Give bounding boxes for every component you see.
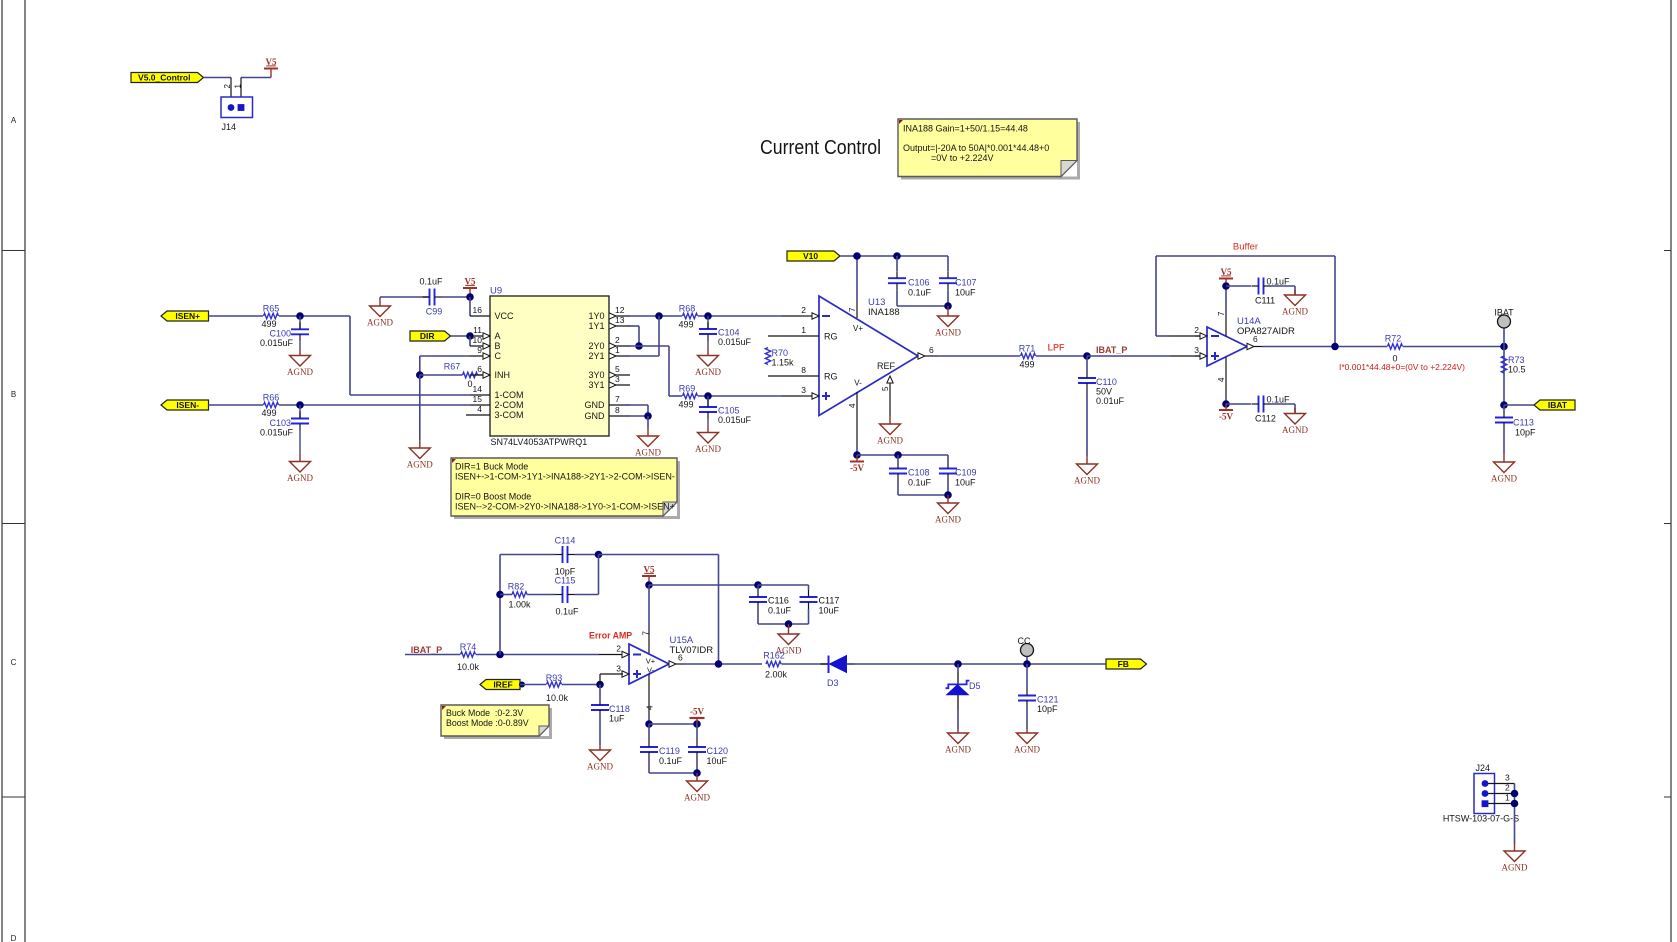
svg-text:AGND: AGND — [407, 460, 433, 470]
ground AGND C111 — [1294, 290, 1296, 295]
node V5 junction C116 — [754, 581, 762, 589]
wire — [405, 654, 460, 656]
wire — [299, 341, 301, 347]
svg-text:IBAT: IBAT — [1548, 400, 1568, 410]
pin 16 VCC — [470, 315, 490, 317]
svg-text:499: 499 — [261, 319, 276, 329]
wire — [209, 404, 264, 406]
capacitor C114 — [562, 546, 564, 563]
capacitor C116 — [757, 585, 759, 590]
node IBAT junction — [1500, 343, 1508, 351]
pin 1 U13 — [768, 335, 819, 337]
node -5V junction C120 — [693, 720, 701, 728]
svg-text:Error AMP: Error AMP — [589, 631, 632, 641]
capacitor C107 — [947, 256, 949, 271]
node CC junction — [1023, 660, 1031, 668]
wire — [299, 431, 301, 454]
wire — [658, 316, 660, 356]
wire — [647, 416, 649, 428]
ground AGND C108 C109 — [947, 495, 949, 503]
svg-text:1.00k: 1.00k — [508, 600, 531, 610]
svg-text:J24: J24 — [1476, 763, 1491, 773]
svg-text:0.01uF: 0.01uF — [1096, 396, 1125, 406]
wire — [698, 315, 782, 317]
svg-text:1-COM: 1-COM — [495, 390, 524, 400]
wire — [627, 325, 639, 327]
svg-text:C114: C114 — [555, 536, 576, 546]
node IBAT_P junction — [1083, 352, 1091, 360]
pin 6 U13 output — [918, 353, 925, 359]
diode D3 — [821, 663, 829, 665]
svg-text:=0V to +2.224V: =0V to +2.224V — [931, 153, 994, 163]
svg-text:AGND: AGND — [587, 762, 613, 772]
svg-text:C109: C109 — [955, 468, 977, 478]
svg-text:V+: V+ — [646, 657, 656, 666]
ground AGND C106 C107 — [947, 306, 949, 316]
svg-text:C99: C99 — [426, 307, 443, 317]
ground AGND U9 — [647, 428, 649, 436]
wire — [707, 341, 709, 348]
pin 15 2-COM — [470, 404, 490, 406]
ground AGND C100 — [299, 348, 301, 356]
wire — [451, 335, 471, 337]
node R69 junction — [704, 392, 712, 400]
svg-text:3: 3 — [1194, 345, 1199, 355]
ground AGND C119 C120 — [696, 773, 698, 781]
svg-text:R73: R73 — [1508, 355, 1525, 365]
wire — [1262, 346, 1387, 348]
node VCC junction — [466, 293, 474, 301]
svg-text:1: 1 — [234, 84, 243, 89]
wire — [469, 297, 471, 316]
svg-text:7: 7 — [1217, 311, 1226, 316]
svg-text:499: 499 — [678, 400, 693, 410]
svg-text:HTSW-103-07-G-S: HTSW-103-07-G-S — [1443, 814, 1519, 824]
wire — [575, 554, 599, 556]
wire — [350, 394, 470, 396]
svg-text:0.1uF: 0.1uF — [1267, 277, 1291, 287]
resistor R74 — [461, 652, 476, 657]
svg-text:11: 11 — [473, 325, 482, 335]
capacitor C108 — [897, 455, 899, 462]
wire — [209, 315, 264, 317]
svg-text:6: 6 — [1253, 334, 1258, 344]
node 2Y0 junction — [635, 342, 643, 350]
svg-text:1Y1: 1Y1 — [588, 321, 604, 331]
svg-text:DIR=1 Buck Mode: DIR=1 Buck Mode — [455, 462, 528, 472]
power V5 at U9 — [469, 288, 471, 297]
resistor R66 — [264, 402, 279, 407]
wire — [599, 717, 601, 745]
node J24 junction 2 — [1511, 790, 1519, 798]
svg-text:INH: INH — [495, 370, 511, 380]
wire — [648, 759, 650, 773]
capacitor C106 — [896, 256, 898, 271]
node R74 junction — [496, 651, 504, 659]
node D5 junction — [954, 660, 962, 668]
svg-text:499: 499 — [1019, 360, 1034, 370]
wire — [1403, 346, 1504, 348]
svg-text:499: 499 — [678, 320, 693, 330]
wire — [575, 594, 599, 596]
power -5V U13 — [856, 455, 858, 462]
pin 12 1Y0 — [609, 315, 630, 317]
svg-text:C116: C116 — [768, 596, 789, 606]
svg-text:10uF: 10uF — [955, 478, 976, 488]
svg-text:C115: C115 — [555, 576, 576, 586]
pin 4 U14A — [1225, 357, 1227, 397]
svg-text:10pF: 10pF — [1515, 428, 1536, 438]
svg-text:-5V: -5V — [850, 463, 864, 473]
svg-text:0.1uF: 0.1uF — [908, 288, 932, 298]
wire feedback — [1156, 255, 1335, 257]
op-amp U15A TLV07IDR — [629, 644, 669, 684]
test point IBAT — [1503, 328, 1505, 347]
svg-text:U9: U9 — [490, 286, 502, 297]
pin 4 U15A — [648, 674, 650, 716]
svg-text:R72: R72 — [1385, 334, 1402, 344]
svg-text:0.015uF: 0.015uF — [718, 415, 752, 425]
svg-text:V-: V- — [854, 379, 862, 388]
ground AGND J24 — [1514, 844, 1516, 852]
svg-text:6: 6 — [929, 345, 934, 355]
pin 5 3Y0 — [609, 374, 630, 376]
svg-text:10uF: 10uF — [819, 606, 840, 616]
svg-text:10uF: 10uF — [707, 756, 728, 766]
capacitor C99 — [380, 296, 430, 298]
svg-text:INA188: INA188 — [868, 307, 900, 318]
svg-text:AGND: AGND — [695, 444, 721, 454]
ground AGND C116 C117 — [788, 624, 790, 634]
IC U9 SN74LV4053ATPWRQ1 — [490, 296, 609, 436]
wire — [897, 481, 899, 496]
pin 6 INH — [470, 374, 490, 376]
svg-text:C108: C108 — [908, 468, 930, 478]
wire — [476, 654, 599, 656]
ground AGND C118 — [599, 745, 601, 750]
resistor R72 — [1388, 344, 1403, 349]
node U15A output junction — [715, 660, 723, 668]
svg-text:9: 9 — [477, 345, 482, 355]
ground AGND REF — [889, 416, 891, 424]
svg-text:C103: C103 — [269, 418, 291, 428]
svg-text:7: 7 — [642, 631, 651, 636]
svg-text:1: 1 — [801, 325, 806, 335]
node V5 junction U14A — [1222, 282, 1230, 290]
wire — [957, 695, 959, 710]
node ISEN- junction — [296, 401, 304, 409]
svg-text:DIR: DIR — [420, 331, 435, 341]
svg-text:0.1uF: 0.1uF — [419, 277, 443, 287]
ground AGND C105 — [707, 425, 709, 433]
pin 3 U14A — [1195, 355, 1200, 357]
wire — [420, 355, 470, 357]
node R73 junction — [1500, 401, 1508, 409]
svg-text:3Y1: 3Y1 — [588, 380, 604, 390]
wire — [1514, 784, 1516, 844]
svg-text:7: 7 — [848, 307, 857, 312]
wire — [649, 723, 697, 725]
svg-text:R65: R65 — [263, 304, 280, 314]
svg-text:1: 1 — [615, 345, 620, 355]
capacitor C103 — [299, 405, 301, 419]
net label ISEN+ — [161, 311, 209, 321]
svg-text:DIR=0 Boost Mode: DIR=0 Boost Mode — [455, 492, 531, 502]
note buck/boost voltage — [444, 708, 552, 739]
node -5V junction C108 — [894, 451, 902, 459]
node V10 junction C106 — [893, 252, 901, 260]
node GND junction — [644, 412, 652, 420]
svg-text:RG: RG — [824, 332, 838, 342]
pin 2 U14A — [1195, 335, 1200, 337]
node output junction U14A — [1331, 343, 1339, 351]
svg-text:V5.0_Control: V5.0_Control — [138, 73, 190, 83]
wire — [469, 336, 471, 346]
resistor R162 — [766, 661, 781, 666]
svg-text:R69: R69 — [679, 384, 696, 394]
svg-text:C: C — [11, 658, 17, 667]
svg-text:5: 5 — [615, 364, 620, 374]
node C114 junction — [595, 551, 603, 559]
svg-text:D5: D5 — [969, 681, 981, 691]
svg-text:LPF: LPF — [1048, 343, 1066, 353]
wire — [947, 481, 949, 496]
svg-text:0.1uF: 0.1uF — [908, 478, 932, 488]
svg-text:A: A — [11, 116, 17, 125]
node DIR junction — [466, 332, 474, 340]
pin 7 U14A — [1225, 286, 1227, 315]
svg-text:Current Control: Current Control — [760, 137, 881, 159]
pin 2 U13 — [801, 315, 812, 317]
node C109 junction — [944, 491, 952, 499]
capacitor C100 — [299, 316, 301, 329]
pin 9 C — [470, 355, 490, 357]
capacitor C104 — [707, 316, 709, 329]
wire — [808, 609, 810, 624]
wire — [1026, 708, 1028, 730]
pin 3 J24 — [1488, 783, 1515, 785]
node -5V junction U14A — [1222, 400, 1230, 408]
wire — [499, 555, 501, 655]
wire — [627, 355, 659, 357]
svg-text:3: 3 — [1505, 773, 1510, 783]
pin 13 1Y1 — [609, 325, 630, 327]
svg-text:C106: C106 — [908, 278, 930, 288]
wire — [707, 419, 709, 425]
svg-text:R93: R93 — [546, 673, 563, 683]
svg-text:J14: J14 — [222, 122, 237, 132]
pin 4 3-COM — [466, 414, 490, 416]
node 1Y0 junction — [655, 312, 663, 320]
svg-text:3-COM: 3-COM — [495, 410, 524, 420]
resistor R82 — [500, 594, 512, 596]
svg-text:A: A — [495, 331, 501, 341]
svg-text:-5V: -5V — [1219, 412, 1233, 422]
svg-text:C107: C107 — [955, 278, 977, 288]
svg-text:ISEN-->2-COM->2Y0->INA188->1Y0: ISEN-->2-COM->2Y0->INA188->1Y0->1-COM->I… — [455, 502, 675, 512]
svg-text:C110: C110 — [1096, 377, 1117, 387]
svg-text:2Y0: 2Y0 — [588, 341, 604, 351]
wire — [1036, 355, 1087, 357]
svg-text:R70: R70 — [772, 348, 789, 358]
pin 7 U15A — [648, 585, 650, 630]
svg-text:RG: RG — [824, 372, 838, 382]
svg-text:2: 2 — [615, 335, 620, 345]
svg-text:0.1uF: 0.1uF — [1267, 395, 1291, 405]
wire — [1086, 390, 1088, 456]
wire — [420, 374, 463, 376]
capacitor C120 — [696, 724, 698, 740]
pin 14 1-COM — [470, 394, 490, 396]
power V5 U14A — [1219, 278, 1233, 280]
wire — [938, 355, 1020, 357]
svg-text:D3: D3 — [827, 678, 839, 688]
node R93 junction — [596, 681, 604, 689]
svg-text:4: 4 — [477, 404, 482, 414]
wire — [684, 663, 762, 665]
svg-text:R71: R71 — [1019, 344, 1036, 354]
wire — [442, 296, 471, 298]
wire — [241, 77, 271, 79]
wire — [478, 374, 491, 376]
wire — [1504, 404, 1534, 406]
svg-text:0.1uF: 0.1uF — [659, 756, 683, 766]
svg-text:AGND: AGND — [935, 515, 961, 525]
svg-text:3: 3 — [801, 385, 806, 395]
wire — [279, 404, 470, 406]
node C119 C120 junction — [693, 769, 701, 777]
svg-text:3Y0: 3Y0 — [588, 370, 604, 380]
svg-text:1: 1 — [1505, 793, 1510, 803]
svg-text:C121: C121 — [1037, 695, 1059, 705]
wire — [649, 584, 758, 586]
capacitor C109 — [947, 455, 949, 462]
capacitor C111 — [1226, 285, 1251, 287]
op-amp U14A OPA827AIDR — [1207, 327, 1247, 366]
resistor R68 — [683, 313, 698, 318]
svg-text:10.0k: 10.0k — [546, 693, 569, 703]
wire — [599, 674, 601, 685]
svg-text:14: 14 — [473, 384, 483, 394]
wire — [840, 255, 948, 257]
pin 7 U13 — [856, 256, 858, 300]
svg-text:V10: V10 — [803, 251, 818, 261]
capacitor C118 — [599, 685, 601, 699]
wire — [627, 345, 669, 347]
wire — [896, 290, 898, 306]
power V5 U15A — [642, 575, 656, 577]
svg-text:C105: C105 — [718, 406, 740, 416]
wire — [599, 554, 719, 556]
svg-text:IREF: IREF — [493, 680, 512, 690]
wire — [857, 454, 948, 456]
net label IBAT — [1534, 400, 1575, 410]
svg-text:AGND: AGND — [1282, 425, 1308, 435]
resistor R70 — [765, 348, 770, 365]
resistor R65 — [264, 313, 279, 318]
pin 8 GND — [609, 415, 630, 417]
net label FB — [1106, 659, 1147, 669]
svg-text:IBAT_P: IBAT_P — [1096, 345, 1127, 355]
pin 3 U13 — [801, 395, 812, 397]
svg-text:1Y0: 1Y0 — [588, 311, 604, 321]
svg-text:3: 3 — [615, 374, 620, 384]
svg-text:AGND: AGND — [635, 448, 661, 458]
node V10 junction pin7 — [853, 252, 861, 260]
wire — [627, 315, 682, 317]
svg-text:8: 8 — [615, 405, 620, 415]
svg-text:C120: C120 — [707, 746, 729, 756]
svg-text:3: 3 — [616, 664, 621, 674]
wire — [758, 584, 809, 586]
capacitor C110 — [1086, 356, 1088, 371]
wire — [204, 77, 232, 79]
note DIR buck/boost modes — [454, 461, 680, 519]
svg-text:2: 2 — [1505, 783, 1510, 793]
svg-text:AGND: AGND — [367, 318, 393, 328]
svg-text:AGND: AGND — [684, 793, 710, 803]
svg-text:C111: C111 — [1255, 296, 1275, 306]
svg-text:10.0k: 10.0k — [457, 662, 480, 672]
svg-text:2: 2 — [1194, 325, 1199, 335]
resistor R71 — [1021, 353, 1036, 358]
svg-text:8: 8 — [801, 365, 806, 375]
capacitor C112 — [1226, 403, 1251, 405]
svg-text:B: B — [11, 390, 16, 399]
svg-text:2: 2 — [223, 84, 232, 89]
svg-text:AGND: AGND — [1014, 745, 1040, 755]
svg-text:C: C — [495, 351, 502, 361]
svg-text:2.00k: 2.00k — [765, 670, 788, 680]
capacitor C115 — [562, 586, 564, 603]
svg-text:16: 16 — [473, 305, 483, 315]
pin 10 B — [470, 345, 490, 347]
svg-text:4: 4 — [646, 705, 655, 710]
pin 1 J24 — [1488, 803, 1515, 805]
node J24 junction 1 — [1511, 800, 1519, 808]
svg-text:ISEN+: ISEN+ — [175, 311, 200, 321]
svg-text:AGND: AGND — [287, 473, 313, 483]
svg-text:TLV07IDR: TLV07IDR — [670, 645, 714, 656]
svg-text:0.015uF: 0.015uF — [260, 428, 294, 438]
ground AGND C113 — [1503, 454, 1505, 462]
power -5V U14A — [1225, 404, 1227, 410]
svg-text:ISEN+->1-COM->1Y1->INA188->2Y1: ISEN+->1-COM->1Y1->INA188->2Y1->2-COM->I… — [455, 472, 675, 482]
svg-text:Output=|-20A to 50A|*0.001*44.: Output=|-20A to 50A|*0.001*44.48+0 — [903, 143, 1049, 153]
svg-text:AGND: AGND — [1502, 863, 1528, 873]
svg-text:VCC: VCC — [495, 311, 515, 321]
svg-text:R67: R67 — [444, 362, 461, 372]
wire — [847, 663, 1107, 665]
node V5 junction U15A — [645, 581, 653, 589]
svg-text:AGND: AGND — [1282, 307, 1308, 317]
capacitor C121 — [1026, 664, 1028, 689]
note INA188 gain — [901, 122, 1080, 180]
svg-text:CC: CC — [1018, 636, 1031, 646]
ground AGND C110 — [1086, 456, 1088, 464]
pin 6 U14A output — [1247, 343, 1254, 349]
svg-text:2: 2 — [801, 305, 806, 315]
svg-text:2: 2 — [616, 644, 621, 654]
wire — [757, 609, 759, 624]
node C107 junction — [944, 302, 952, 310]
svg-text:R68: R68 — [679, 304, 696, 314]
ground AGND C112 — [1294, 408, 1296, 414]
svg-text:12: 12 — [615, 305, 625, 315]
capacitor C117 — [808, 585, 810, 590]
capacitor C113 — [1503, 405, 1505, 411]
svg-text:C104: C104 — [718, 328, 740, 338]
